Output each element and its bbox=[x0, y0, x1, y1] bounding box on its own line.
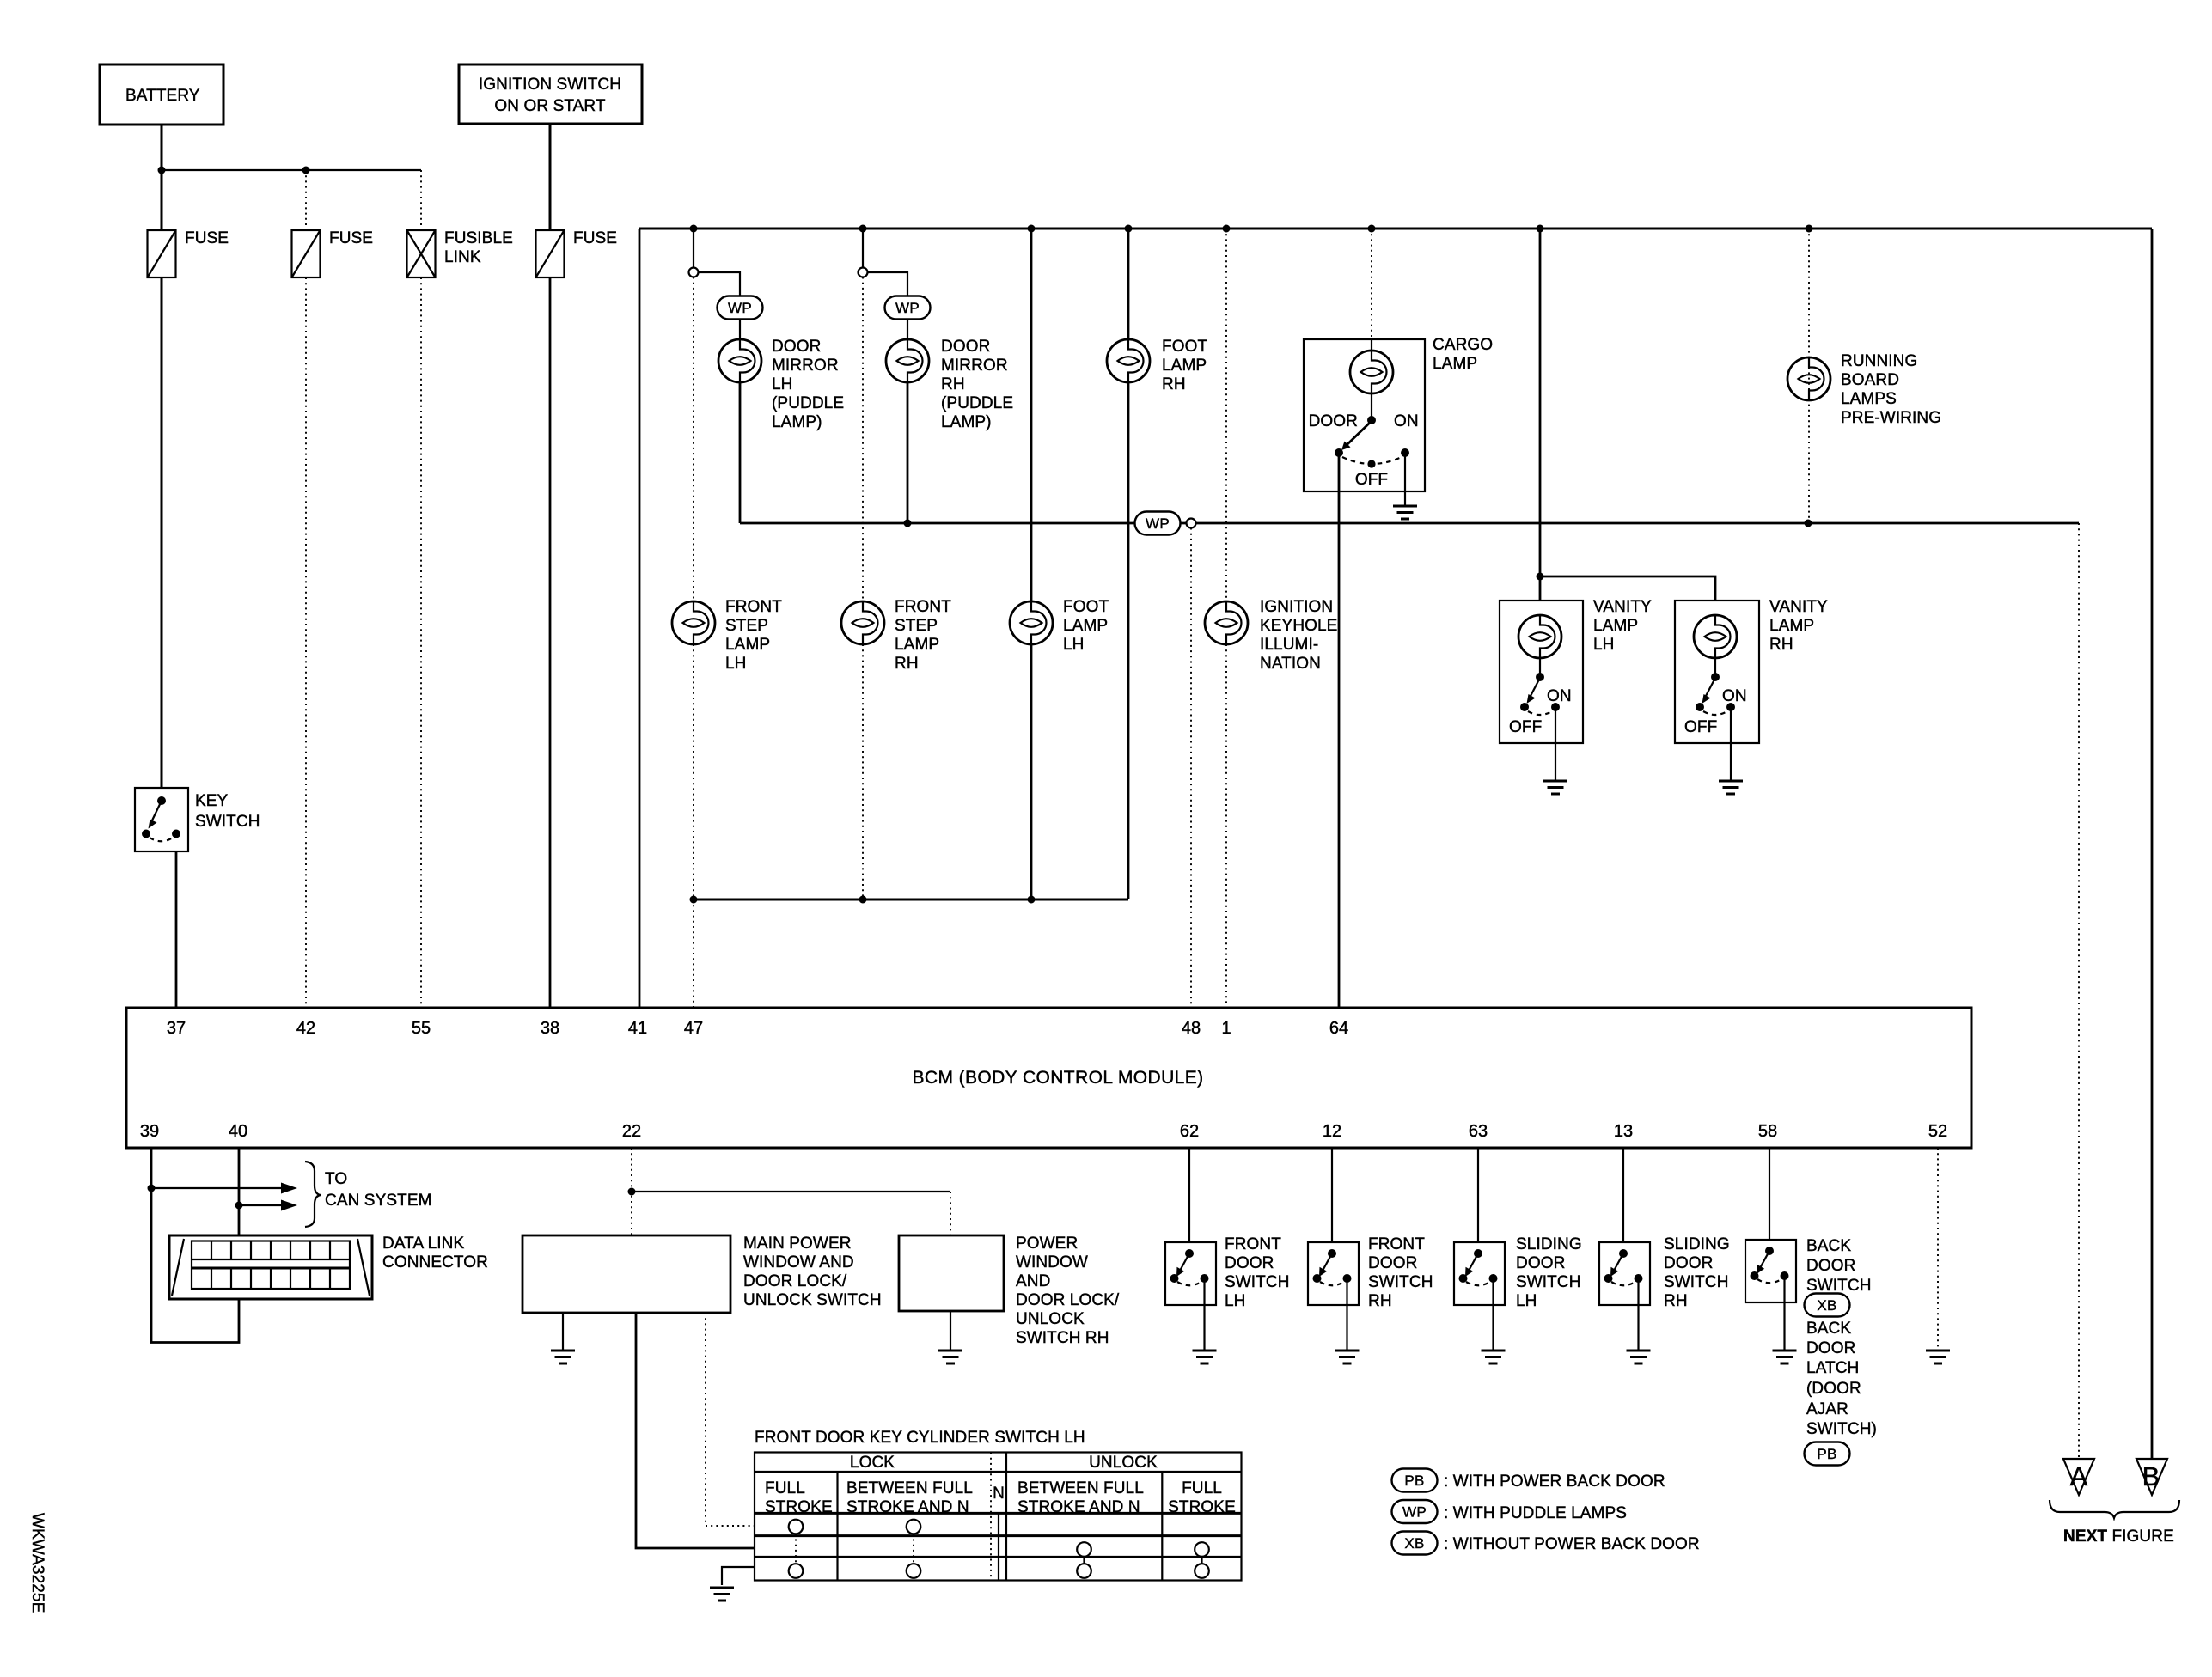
contact circle unlock between row2 bbox=[1077, 1542, 1091, 1557]
lamp foot lamp LH bbox=[1010, 598, 1109, 654]
svg-text:FUSE: FUSE bbox=[185, 229, 229, 247]
node open connector LH bbox=[689, 268, 699, 277]
svg-text:LINK: LINK bbox=[444, 248, 481, 266]
wire cargo feed inside box bbox=[1371, 339, 1372, 351]
wire front door switch RH to ground bbox=[1346, 1278, 1347, 1351]
svg-text:37: 37 bbox=[167, 1019, 186, 1038]
svg-text:LATCH: LATCH bbox=[1806, 1359, 1859, 1377]
lamp ignition keyhole illumination bbox=[1205, 598, 1337, 673]
svg-text:FUSIBLE: FUSIBLE bbox=[444, 229, 513, 247]
svg-text:RH: RH bbox=[1664, 1292, 1688, 1310]
ground power window RH switch bbox=[938, 1351, 962, 1363]
svg-text:STROKE AND N: STROKE AND N bbox=[1017, 1498, 1140, 1516]
wire battery to junction bus bbox=[161, 125, 163, 230]
svg-text:AJAR: AJAR bbox=[1806, 1400, 1848, 1418]
brace to CAN system bbox=[305, 1162, 321, 1227]
svg-text:LAMP: LAMP bbox=[1593, 617, 1638, 635]
lamp front step lamp RH bbox=[841, 598, 951, 673]
sliding door switch LH bbox=[1454, 1235, 1582, 1310]
fuse F1 (battery) bbox=[148, 230, 176, 277]
svg-text:LH: LH bbox=[1225, 1292, 1246, 1310]
wire key switch to BCM pin 37 bbox=[175, 851, 178, 1008]
svg-text:MIRROR: MIRROR bbox=[772, 357, 839, 375]
svg-text:BCM (BODY CONTROL MODULE): BCM (BODY CONTROL MODULE) bbox=[912, 1068, 1203, 1088]
lamp foot lamp RH bbox=[1107, 338, 1207, 393]
svg-text:SWITCH: SWITCH bbox=[195, 813, 260, 831]
node top bus junction x1427 bbox=[1223, 225, 1231, 233]
svg-text:DATA LINK: DATA LINK bbox=[382, 1235, 464, 1253]
contact circle unlock full stroke row3 bbox=[1195, 1564, 1209, 1578]
svg-text:FOOT: FOOT bbox=[1063, 598, 1109, 616]
svg-text:RH: RH bbox=[895, 655, 919, 673]
wire BCM pin 40 to DLC top bbox=[238, 1148, 241, 1235]
svg-text:OFF: OFF bbox=[1355, 471, 1388, 489]
wire junction to fuse2 bbox=[305, 170, 307, 230]
svg-text:LH: LH bbox=[772, 375, 793, 393]
wire BCM pin 62 to front door switch LH bbox=[1188, 1148, 1190, 1242]
lamp door mirror RH (puddle lamp) bbox=[886, 338, 1013, 431]
svg-text:STROKE AND N: STROKE AND N bbox=[846, 1498, 969, 1516]
connector arrow B to next figure bbox=[2136, 1459, 2167, 1495]
svg-text:BETWEEN FULL: BETWEEN FULL bbox=[1017, 1479, 1144, 1497]
svg-text:MIRROR: MIRROR bbox=[941, 357, 1008, 375]
svg-text:58: 58 bbox=[1758, 1122, 1777, 1141]
svg-text:SLIDING: SLIDING bbox=[1664, 1235, 1730, 1253]
power window and door lock unlock switch RH box bbox=[899, 1235, 1120, 1347]
wire down into power window RH switch bbox=[950, 1192, 951, 1235]
wire BCM pin 12 to front door switch RH bbox=[1331, 1148, 1333, 1242]
front door switch LH bbox=[1165, 1235, 1290, 1310]
legend XB bbox=[1392, 1532, 1700, 1555]
wire running board lamp feed bbox=[1808, 229, 1810, 523]
vanity lamp LH box bbox=[1500, 601, 1583, 743]
node WP bus x2104 bbox=[1805, 520, 1812, 527]
contact circle lock between row1 bbox=[907, 1520, 921, 1534]
svg-text:STROKE: STROKE bbox=[1168, 1498, 1236, 1516]
wire main switch to ground bbox=[562, 1313, 564, 1351]
connector PB oval back door latch bbox=[1805, 1442, 1850, 1466]
svg-text:KEYHOLE: KEYHOLE bbox=[1260, 617, 1337, 635]
svg-text:OFF: OFF bbox=[1509, 718, 1542, 736]
svg-text:FRONT: FRONT bbox=[725, 598, 782, 616]
node lamp bus x807 bbox=[690, 896, 698, 904]
svg-text:ON: ON bbox=[1547, 687, 1572, 705]
svg-text:SWITCH: SWITCH bbox=[1516, 1273, 1581, 1291]
svg-text:DOOR: DOOR bbox=[1225, 1254, 1274, 1272]
svg-text:ILLUMI-: ILLUMI- bbox=[1260, 636, 1318, 654]
wire vanity feed to RH bbox=[1540, 576, 1715, 601]
svg-text:SLIDING: SLIDING bbox=[1516, 1235, 1582, 1253]
wire bus to tap node RH bbox=[862, 229, 864, 268]
wire lamp return bus bbox=[694, 899, 1128, 901]
svg-text:SWITCH): SWITCH) bbox=[1806, 1420, 1877, 1438]
label between full stroke and N lock bbox=[846, 1479, 973, 1516]
wire cargo lamp feed bbox=[1371, 229, 1372, 339]
fusible link bbox=[407, 229, 513, 277]
svg-text:VANITY: VANITY bbox=[1593, 598, 1652, 616]
svg-text:(DOOR: (DOOR bbox=[1806, 1380, 1861, 1398]
svg-text:PRE-WIRING: PRE-WIRING bbox=[1841, 409, 1941, 427]
svg-text:LH: LH bbox=[1516, 1292, 1537, 1310]
svg-text:62: 62 bbox=[1180, 1122, 1199, 1141]
svg-text:41: 41 bbox=[628, 1019, 647, 1038]
wire pin47 branch dotted upper bbox=[693, 277, 694, 602]
svg-text:FULL: FULL bbox=[765, 1479, 805, 1497]
svg-text:RH: RH bbox=[1162, 375, 1186, 393]
wire BCM pin 39 down and to DLC bottom bbox=[151, 1148, 239, 1343]
svg-text:BETWEEN FULL: BETWEEN FULL bbox=[846, 1479, 973, 1497]
wire tap node to WP oval RH bbox=[868, 272, 908, 296]
key switch bbox=[135, 788, 260, 851]
wire BCM pin 52 to ground bbox=[1937, 1148, 1939, 1351]
svg-text:WP: WP bbox=[1146, 515, 1170, 532]
wire battery junction bus horizontal bbox=[162, 169, 421, 171]
svg-text:RH: RH bbox=[1368, 1292, 1392, 1310]
svg-text:TO: TO bbox=[325, 1170, 347, 1188]
svg-text:WP: WP bbox=[1402, 1504, 1427, 1521]
wire sliding door switch LH to ground bbox=[1492, 1278, 1494, 1351]
ground back door switch bbox=[1773, 1351, 1797, 1363]
node WP bus x1056 bbox=[904, 520, 912, 527]
node pin22 junction bbox=[628, 1188, 636, 1196]
data link connector bbox=[169, 1235, 488, 1299]
ground BCM pin 52 bbox=[1926, 1351, 1950, 1363]
node battery junction bbox=[158, 167, 166, 174]
svg-text:64: 64 bbox=[1329, 1019, 1348, 1038]
svg-text:LH: LH bbox=[1063, 636, 1085, 654]
lamp running board lamps pre-wiring bbox=[1787, 352, 1941, 427]
svg-text:FULL: FULL bbox=[1182, 1479, 1222, 1497]
battery bbox=[100, 64, 223, 125]
label back door latch bbox=[1806, 1320, 1877, 1438]
ground vanity lamp LH bbox=[1543, 781, 1567, 794]
label full stroke lock bbox=[765, 1479, 833, 1516]
ground front door switch RH bbox=[1335, 1351, 1360, 1363]
lamp door mirror LH (puddle lamp) bbox=[718, 338, 844, 431]
svg-text:55: 55 bbox=[412, 1019, 431, 1038]
svg-text:22: 22 bbox=[622, 1122, 641, 1141]
wire cargo DOOR contact to BCM pin 64 bbox=[1338, 453, 1341, 1008]
svg-text:CAN SYSTEM: CAN SYSTEM bbox=[325, 1192, 432, 1210]
svg-text:ON OR START: ON OR START bbox=[494, 97, 605, 115]
svg-text:DOOR: DOOR bbox=[1664, 1254, 1713, 1272]
node top bus junction x1313 bbox=[1125, 225, 1133, 233]
svg-text:FUSE: FUSE bbox=[573, 229, 617, 247]
wire WP tap to BCM pin 48 bbox=[1190, 528, 1192, 1009]
contact circle unlock between row3 bbox=[1077, 1564, 1091, 1578]
switch cargo lamp 3-position bbox=[1309, 412, 1419, 489]
contact circle lock full stroke row1 bbox=[789, 1520, 804, 1534]
sliding door switch RH bbox=[1599, 1235, 1730, 1310]
node top bus junction x1004 bbox=[859, 225, 867, 233]
wire vanity RH ON contact to ground bbox=[1730, 707, 1732, 781]
svg-text:39: 39 bbox=[140, 1122, 159, 1141]
wire WP oval to door mirror lamp LH bbox=[739, 320, 741, 340]
switch vanity lamp LH bbox=[1509, 658, 1572, 736]
svg-text:40: 40 bbox=[229, 1122, 247, 1141]
wire BCM pin 63 to sliding door switch LH bbox=[1477, 1148, 1479, 1242]
svg-text:LAMP: LAMP bbox=[1063, 617, 1108, 635]
svg-text:1: 1 bbox=[1221, 1019, 1231, 1038]
contact circle lock full stroke row3 bbox=[789, 1564, 804, 1578]
svg-text:42: 42 bbox=[296, 1019, 315, 1038]
svg-text:DOOR: DOOR bbox=[772, 338, 821, 356]
wire WP bus right end down to A bbox=[2078, 523, 2080, 1459]
lamp front step lamp LH bbox=[672, 598, 782, 673]
node top bus junction x1792 bbox=[1537, 225, 1544, 233]
ground sliding door switch LH bbox=[1482, 1351, 1506, 1363]
wire BCM pin 58 to back door switch bbox=[1769, 1148, 1770, 1240]
node vanity feed junction bbox=[1537, 573, 1544, 581]
ground vanity lamp RH bbox=[1719, 781, 1743, 794]
svg-text:SWITCH RH: SWITCH RH bbox=[1016, 1329, 1109, 1347]
svg-text:STEP: STEP bbox=[895, 617, 938, 635]
ignition switch box bbox=[459, 64, 642, 124]
svg-text:VANITY: VANITY bbox=[1769, 598, 1828, 616]
wire CAN arrow lower bbox=[239, 1204, 287, 1206]
front door switch RH bbox=[1308, 1235, 1433, 1310]
svg-text:PB: PB bbox=[1404, 1473, 1424, 1489]
svg-text:DOOR LOCK/: DOOR LOCK/ bbox=[1016, 1291, 1120, 1309]
wire tap node to WP oval LH bbox=[699, 272, 741, 296]
lamp cargo lamp bbox=[1350, 336, 1493, 393]
svg-text:LAMP: LAMP bbox=[1769, 617, 1814, 635]
wire junction to fusible link bbox=[420, 170, 422, 230]
wire CAN arrow upper bbox=[151, 1187, 287, 1189]
wire front door switch LH to ground bbox=[1203, 1278, 1205, 1351]
node fuse2 junction bbox=[302, 167, 310, 174]
wire WP lamp bus horizontal bbox=[740, 522, 2079, 525]
node lamp bus x1004 bbox=[859, 896, 867, 904]
svg-text:13: 13 bbox=[1614, 1122, 1633, 1141]
connector arrow A to next figure bbox=[2063, 1459, 2094, 1495]
svg-text:WP: WP bbox=[895, 300, 920, 316]
ground key cylinder switch bbox=[710, 1588, 734, 1601]
svg-text:DOOR: DOOR bbox=[1368, 1254, 1417, 1272]
svg-text:DOOR LOCK/: DOOR LOCK/ bbox=[743, 1272, 847, 1290]
ground sliding door switch RH bbox=[1627, 1351, 1651, 1363]
wire ignition keyhole to BCM pin 1 bbox=[1225, 644, 1227, 1008]
wire pin22 junction to power window RH switch bbox=[632, 1191, 950, 1192]
svg-text:STROKE: STROKE bbox=[765, 1498, 833, 1516]
svg-text:ON: ON bbox=[1722, 687, 1747, 705]
svg-text:UNLOCK SWITCH: UNLOCK SWITCH bbox=[743, 1291, 882, 1309]
svg-text:AND: AND bbox=[1016, 1272, 1050, 1290]
node top bus junction x807 bbox=[690, 225, 698, 233]
wire top bus right end down to B bbox=[2151, 229, 2154, 1459]
node open connector WP bus bbox=[1187, 519, 1196, 528]
svg-text:FRONT: FRONT bbox=[1225, 1235, 1281, 1253]
node pin39 CAN junction bbox=[148, 1185, 156, 1192]
svg-text:RUNNING: RUNNING bbox=[1841, 352, 1917, 370]
svg-text:UNLOCK: UNLOCK bbox=[1089, 1454, 1158, 1472]
svg-text:(PUDDLE: (PUDDLE bbox=[941, 394, 1013, 412]
svg-text:CARGO: CARGO bbox=[1433, 336, 1493, 354]
wire link unlock full stroke bbox=[1201, 1557, 1202, 1564]
svg-text:SWITCH: SWITCH bbox=[1664, 1273, 1729, 1291]
wire lamp bus to BCM pin 47 bbox=[693, 899, 694, 1008]
svg-text:LAMP: LAMP bbox=[895, 636, 939, 654]
wire vanity feed vertical bbox=[1539, 229, 1542, 601]
svg-text:SWITCH: SWITCH bbox=[1806, 1277, 1872, 1295]
svg-text:FRONT DOOR KEY CYLINDER SWITCH: FRONT DOOR KEY CYLINDER SWITCH LH bbox=[755, 1429, 1085, 1447]
svg-text:XB: XB bbox=[1817, 1297, 1836, 1314]
fuse F4 (ignition) bbox=[536, 230, 565, 277]
wire fuse F2 to BCM pin 42 bbox=[305, 277, 307, 1008]
wire front step RH dotted upper bbox=[862, 277, 864, 602]
svg-text:PB: PB bbox=[1817, 1446, 1836, 1462]
vanity lamp RH box bbox=[1675, 601, 1759, 743]
wire top supply bus bbox=[639, 228, 2152, 230]
svg-text:DOOR: DOOR bbox=[1309, 412, 1358, 430]
svg-text:LAMP: LAMP bbox=[1162, 357, 1207, 375]
wire door mirror RH lamp down to WP bus bbox=[907, 382, 909, 523]
wire vanity LH ON contact to ground bbox=[1555, 707, 1556, 781]
svg-text:IGNITION SWITCH: IGNITION SWITCH bbox=[479, 76, 621, 94]
brace next figure bbox=[2050, 1500, 2179, 1518]
wire ignition switch to fuse F4 bbox=[549, 124, 552, 230]
svg-text:KEY: KEY bbox=[195, 792, 229, 810]
svg-text:38: 38 bbox=[541, 1019, 559, 1038]
svg-text:WINDOW AND: WINDOW AND bbox=[743, 1253, 854, 1271]
svg-text:SWITCH: SWITCH bbox=[1225, 1273, 1290, 1291]
svg-text:48: 48 bbox=[1182, 1019, 1201, 1038]
ground main power window switch bbox=[551, 1351, 575, 1363]
svg-text:BATTERY: BATTERY bbox=[125, 87, 200, 105]
svg-text:: WITH POWER BACK DOOR: : WITH POWER BACK DOOR bbox=[1444, 1473, 1665, 1491]
svg-text:SWITCH: SWITCH bbox=[1368, 1273, 1433, 1291]
svg-text:N: N bbox=[993, 1485, 1005, 1503]
back door switch bbox=[1745, 1237, 1872, 1302]
svg-text:LH: LH bbox=[1593, 636, 1615, 654]
svg-text:DOOR: DOOR bbox=[1806, 1257, 1855, 1275]
connector WP oval door mirror LH bbox=[718, 296, 763, 320]
svg-text:FOOT: FOOT bbox=[1162, 338, 1207, 356]
wire top bus left end to BCM pin 41 bbox=[639, 229, 641, 1008]
wire back door switch to ground bbox=[1783, 1276, 1785, 1351]
wire main switch to key cylinder row1 bbox=[706, 1313, 755, 1526]
wire ignition keyhole vertical bbox=[1225, 229, 1227, 601]
svg-text:LAMP): LAMP) bbox=[772, 413, 822, 431]
svg-text:CONNECTOR: CONNECTOR bbox=[382, 1253, 488, 1271]
svg-text:BOARD: BOARD bbox=[1841, 371, 1899, 389]
wire bus to tap node LH bbox=[693, 229, 694, 268]
connector WP oval door mirror RH bbox=[885, 296, 931, 320]
svg-text:LAMPS: LAMPS bbox=[1841, 390, 1897, 408]
svg-text:XB: XB bbox=[1404, 1535, 1424, 1552]
contact circle unlock full stroke row2 bbox=[1195, 1542, 1209, 1557]
node top bus junction x1200 bbox=[1028, 225, 1036, 233]
wire front step LH to lamp bus bbox=[693, 644, 694, 899]
wire link lock full stroke bbox=[795, 1534, 797, 1564]
label between full stroke and N unlock bbox=[1017, 1479, 1144, 1516]
wire fusible link to BCM pin 55 bbox=[420, 277, 422, 1008]
switch vanity lamp RH bbox=[1684, 658, 1747, 736]
ground cargo lamp bbox=[1393, 506, 1417, 519]
wire link lock between bbox=[913, 1534, 914, 1564]
wire foot lamp RH vertical upper bbox=[1127, 229, 1130, 339]
svg-text:POWER: POWER bbox=[1016, 1235, 1078, 1253]
svg-text:WINDOW: WINDOW bbox=[1016, 1253, 1088, 1271]
svg-text:A: A bbox=[2070, 1461, 2088, 1491]
wire power RH switch to ground bbox=[950, 1311, 951, 1351]
BCM body control module box bbox=[126, 1008, 1971, 1148]
svg-text:FRONT: FRONT bbox=[1368, 1235, 1425, 1253]
svg-text:RH: RH bbox=[1769, 636, 1793, 654]
lamp vanity lamp RH bbox=[1694, 598, 1828, 658]
svg-text:DOOR: DOOR bbox=[1516, 1254, 1565, 1272]
svg-text:IGNITION: IGNITION bbox=[1260, 598, 1333, 616]
svg-text:(PUDDLE: (PUDDLE bbox=[772, 394, 844, 412]
label TO CAN SYSTEM bbox=[325, 1170, 432, 1210]
node open connector RH bbox=[859, 268, 868, 277]
contact circle lock between row3 bbox=[907, 1564, 921, 1578]
wire main switch to key cylinder row2 bbox=[636, 1313, 755, 1548]
node top bus junction x2105 bbox=[1806, 225, 1813, 233]
key cylinder switch table frame bbox=[755, 1453, 1242, 1581]
node pin40 CAN junction bbox=[235, 1202, 243, 1210]
svg-text:LAMP: LAMP bbox=[1433, 355, 1477, 373]
svg-text:LH: LH bbox=[725, 655, 747, 673]
svg-text:RH: RH bbox=[941, 375, 965, 393]
ground front door switch LH bbox=[1193, 1351, 1217, 1363]
wire link unlock between bbox=[1083, 1557, 1085, 1564]
svg-text:BACK: BACK bbox=[1806, 1320, 1851, 1338]
svg-text:WKWA3225E: WKWA3225E bbox=[28, 1513, 46, 1613]
wire fuse F4 to BCM pin 38 bbox=[549, 277, 552, 1008]
svg-text:: WITHOUT POWER BACK DOOR: : WITHOUT POWER BACK DOOR bbox=[1444, 1535, 1700, 1553]
wire foot lamp LH to lamp bus bbox=[1030, 644, 1033, 899]
connector XB oval back door bbox=[1805, 1294, 1850, 1317]
wire front step RH to lamp bus bbox=[862, 644, 864, 899]
main power window and door lock unlock switch box bbox=[522, 1235, 882, 1313]
legend WP bbox=[1392, 1500, 1628, 1523]
wire key cylinder row3 to ground bbox=[722, 1567, 755, 1585]
svg-text:63: 63 bbox=[1469, 1122, 1488, 1141]
wire foot lamp RH down to lamp bus bbox=[1127, 382, 1130, 899]
svg-text:B: B bbox=[2142, 1461, 2160, 1491]
wire sliding door switch RH to ground bbox=[1637, 1278, 1639, 1351]
svg-text:OFF: OFF bbox=[1684, 718, 1717, 736]
svg-text:NATION: NATION bbox=[1260, 655, 1321, 673]
fuse F2 bbox=[292, 230, 321, 277]
wire WP oval to door mirror lamp RH bbox=[907, 320, 908, 340]
lamp vanity lamp LH bbox=[1518, 598, 1652, 658]
svg-text:NEXT FIGURE: NEXT FIGURE bbox=[2063, 1528, 2174, 1546]
wire BCM pin 22 to main switch bbox=[631, 1148, 632, 1235]
node top bus junction x1596 bbox=[1368, 225, 1376, 233]
wire cargo ON contact to ground bbox=[1404, 453, 1406, 506]
svg-text:ON: ON bbox=[1394, 412, 1419, 430]
svg-text:STEP: STEP bbox=[725, 617, 768, 635]
legend PB bbox=[1392, 1469, 1665, 1492]
svg-text:DOOR: DOOR bbox=[1806, 1339, 1855, 1357]
svg-text:12: 12 bbox=[1323, 1122, 1341, 1141]
svg-text:: WITH PUDDLE LAMPS: : WITH PUDDLE LAMPS bbox=[1444, 1504, 1627, 1522]
svg-text:UNLOCK: UNLOCK bbox=[1016, 1310, 1085, 1328]
wire cargo lamp to switch common bbox=[1371, 393, 1372, 418]
node lamp bus x1200 bbox=[1028, 896, 1036, 904]
svg-text:LAMP: LAMP bbox=[725, 636, 770, 654]
svg-text:47: 47 bbox=[684, 1019, 703, 1038]
cargo lamp box bbox=[1304, 339, 1425, 491]
wire door mirror LH lamp down to WP bus bbox=[739, 382, 742, 523]
svg-text:LAMP): LAMP) bbox=[941, 413, 992, 431]
wire foot lamp LH vertical upper bbox=[1030, 229, 1033, 601]
label full stroke unlock bbox=[1168, 1479, 1236, 1516]
svg-text:WP: WP bbox=[728, 300, 752, 316]
svg-text:BACK: BACK bbox=[1806, 1237, 1851, 1255]
